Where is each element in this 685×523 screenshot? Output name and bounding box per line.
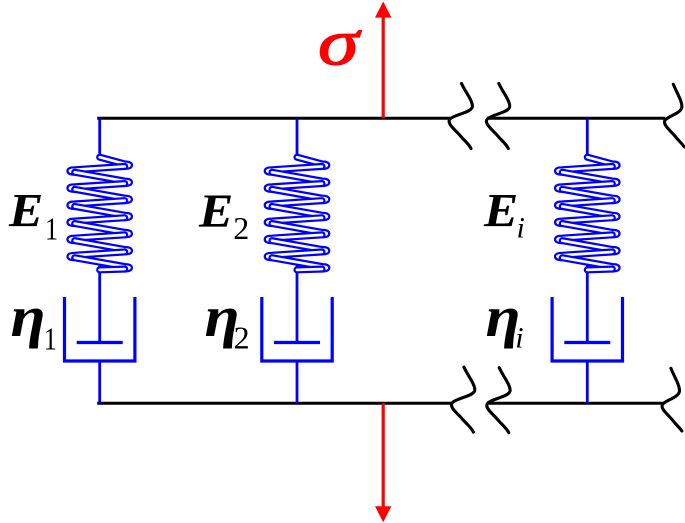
label eta1	[11, 286, 57, 357]
wire: top lead branch 2	[296, 118, 299, 158]
wire: middle rod branch 2	[296, 265, 299, 343]
bottom rail left segment	[97, 402, 452, 405]
dashpot eta2	[262, 297, 332, 361]
bottom rail right segment	[488, 402, 663, 405]
wire: bottom lead branch i	[586, 360, 589, 404]
svg-text:E: E	[483, 184, 518, 237]
label E1	[8, 184, 58, 247]
break squiggle bottom B	[487, 368, 510, 433]
top rail right segment	[487, 117, 665, 120]
spring E2	[267, 157, 327, 270]
wire: top lead branch 1	[98, 118, 101, 158]
svg-text:E: E	[198, 185, 233, 238]
break squiggle top right	[664, 84, 684, 147]
wire: middle rod branch i	[586, 265, 589, 343]
dashpot eta1	[65, 297, 135, 361]
break squiggle top B	[486, 84, 509, 149]
svg-text:1: 1	[44, 322, 57, 357]
stress arrow down	[375, 403, 391, 522]
spring E1	[70, 157, 130, 270]
svg-text:E: E	[8, 184, 43, 237]
svg-text:i: i	[515, 321, 523, 354]
spring Ei	[558, 157, 618, 270]
top rail left segment	[97, 117, 450, 120]
wire: bottom lead branch 2	[296, 360, 299, 404]
svg-text:η: η	[11, 286, 46, 350]
svg-text:i: i	[517, 212, 525, 245]
svg-text:σ: σ	[318, 6, 362, 79]
break squiggle bottom A	[451, 367, 474, 432]
break squiggle top A	[449, 84, 472, 149]
label etai	[486, 286, 524, 355]
wire: middle rod branch 1	[98, 265, 101, 343]
label E2	[198, 185, 249, 246]
stress arrow up	[375, 2, 391, 119]
label Ei	[483, 184, 525, 245]
svg-text:2: 2	[233, 210, 249, 246]
wire: top lead branch i	[586, 118, 589, 158]
svg-text:2: 2	[234, 319, 250, 355]
wire: bottom lead branch 1	[98, 360, 101, 404]
dashpot etai	[552, 297, 622, 361]
svg-text:1: 1	[45, 212, 58, 247]
break squiggle bottom right	[662, 368, 682, 431]
label eta2	[205, 286, 250, 356]
